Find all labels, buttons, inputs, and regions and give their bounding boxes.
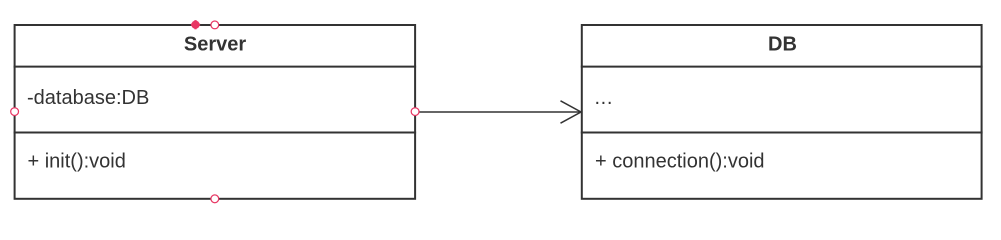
- svg-text:DB: DB: [768, 34, 797, 56]
- svg-text:+ connection():void: + connection():void: [595, 151, 765, 173]
- svg-text:...: ...: [595, 87, 613, 109]
- svg-text:+ init():void: + init():void: [28, 151, 126, 173]
- svg-text:-database:DB: -database:DB: [27, 87, 149, 109]
- svg-text:Server: Server: [184, 34, 246, 56]
